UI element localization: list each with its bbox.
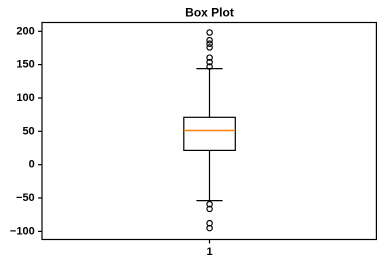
- y tick 0: [38, 164, 42, 166]
- upper cap: [196, 68, 222, 70]
- svg-text:Box Plot: Box Plot: [185, 6, 234, 20]
- flier o5: [207, 55, 212, 60]
- flier o4: [207, 45, 212, 50]
- svg-text:200: 200: [16, 25, 34, 37]
- median line: [184, 130, 236, 132]
- svg-text:100: 100: [16, 92, 34, 104]
- svg-text:50: 50: [22, 125, 34, 137]
- flier o7: [207, 64, 212, 69]
- flier o6: [207, 59, 212, 64]
- flier o10: [207, 221, 212, 226]
- lower cap: [196, 200, 222, 202]
- y tick 50: [38, 130, 42, 132]
- svg-text:0: 0: [29, 159, 35, 171]
- flier o11: [207, 225, 212, 230]
- flier o8: [207, 202, 212, 207]
- flier o3: [207, 41, 212, 46]
- svg-text:−50: −50: [16, 192, 35, 204]
- svg-text:−100: −100: [10, 225, 35, 237]
- y tick -100: [38, 230, 42, 232]
- flier o2: [207, 38, 212, 43]
- y tick 100: [38, 97, 42, 99]
- axes frame: [42, 23, 376, 240]
- upper whisker: [209, 69, 211, 118]
- x tick 1: [209, 240, 211, 244]
- box: [184, 117, 236, 150]
- y tick 200: [38, 30, 42, 32]
- y tick 150: [38, 64, 42, 66]
- flier o9: [207, 206, 212, 211]
- flier o1: [207, 30, 212, 35]
- y tick -50: [38, 197, 42, 199]
- svg-text:150: 150: [16, 59, 34, 71]
- svg-text:1: 1: [206, 246, 212, 258]
- lower whisker: [209, 150, 211, 200]
